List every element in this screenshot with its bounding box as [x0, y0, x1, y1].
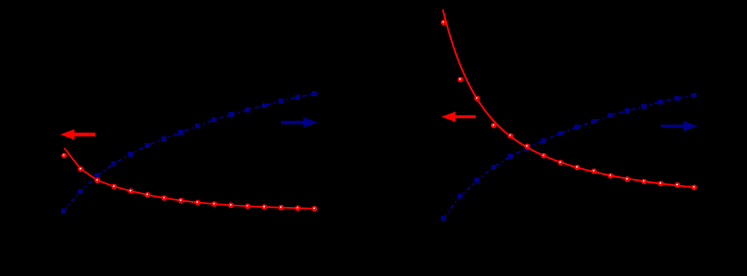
left panel: red decaying curve (left-axis series)	[64, 148, 314, 209]
left panel: red arrow pointing left	[60, 129, 95, 139]
left panel: blue arrow pointing right	[281, 117, 318, 127]
left panel: blue dash-dot rising curve (right-axis series)	[64, 94, 315, 211]
right panel: red circle markers	[441, 20, 697, 191]
right panel: blue arrow pointing right	[661, 121, 698, 131]
right panel: red arrow pointing left	[442, 112, 476, 122]
right panel: blue square markers	[441, 93, 696, 221]
right panel: red fit line (steep decay)	[443, 10, 696, 188]
right panel: blue dash-dot rising curve (right-axis series)	[443, 95, 694, 218]
left panel: blue square markers	[61, 91, 317, 213]
left panel: red circle markers	[61, 153, 317, 212]
